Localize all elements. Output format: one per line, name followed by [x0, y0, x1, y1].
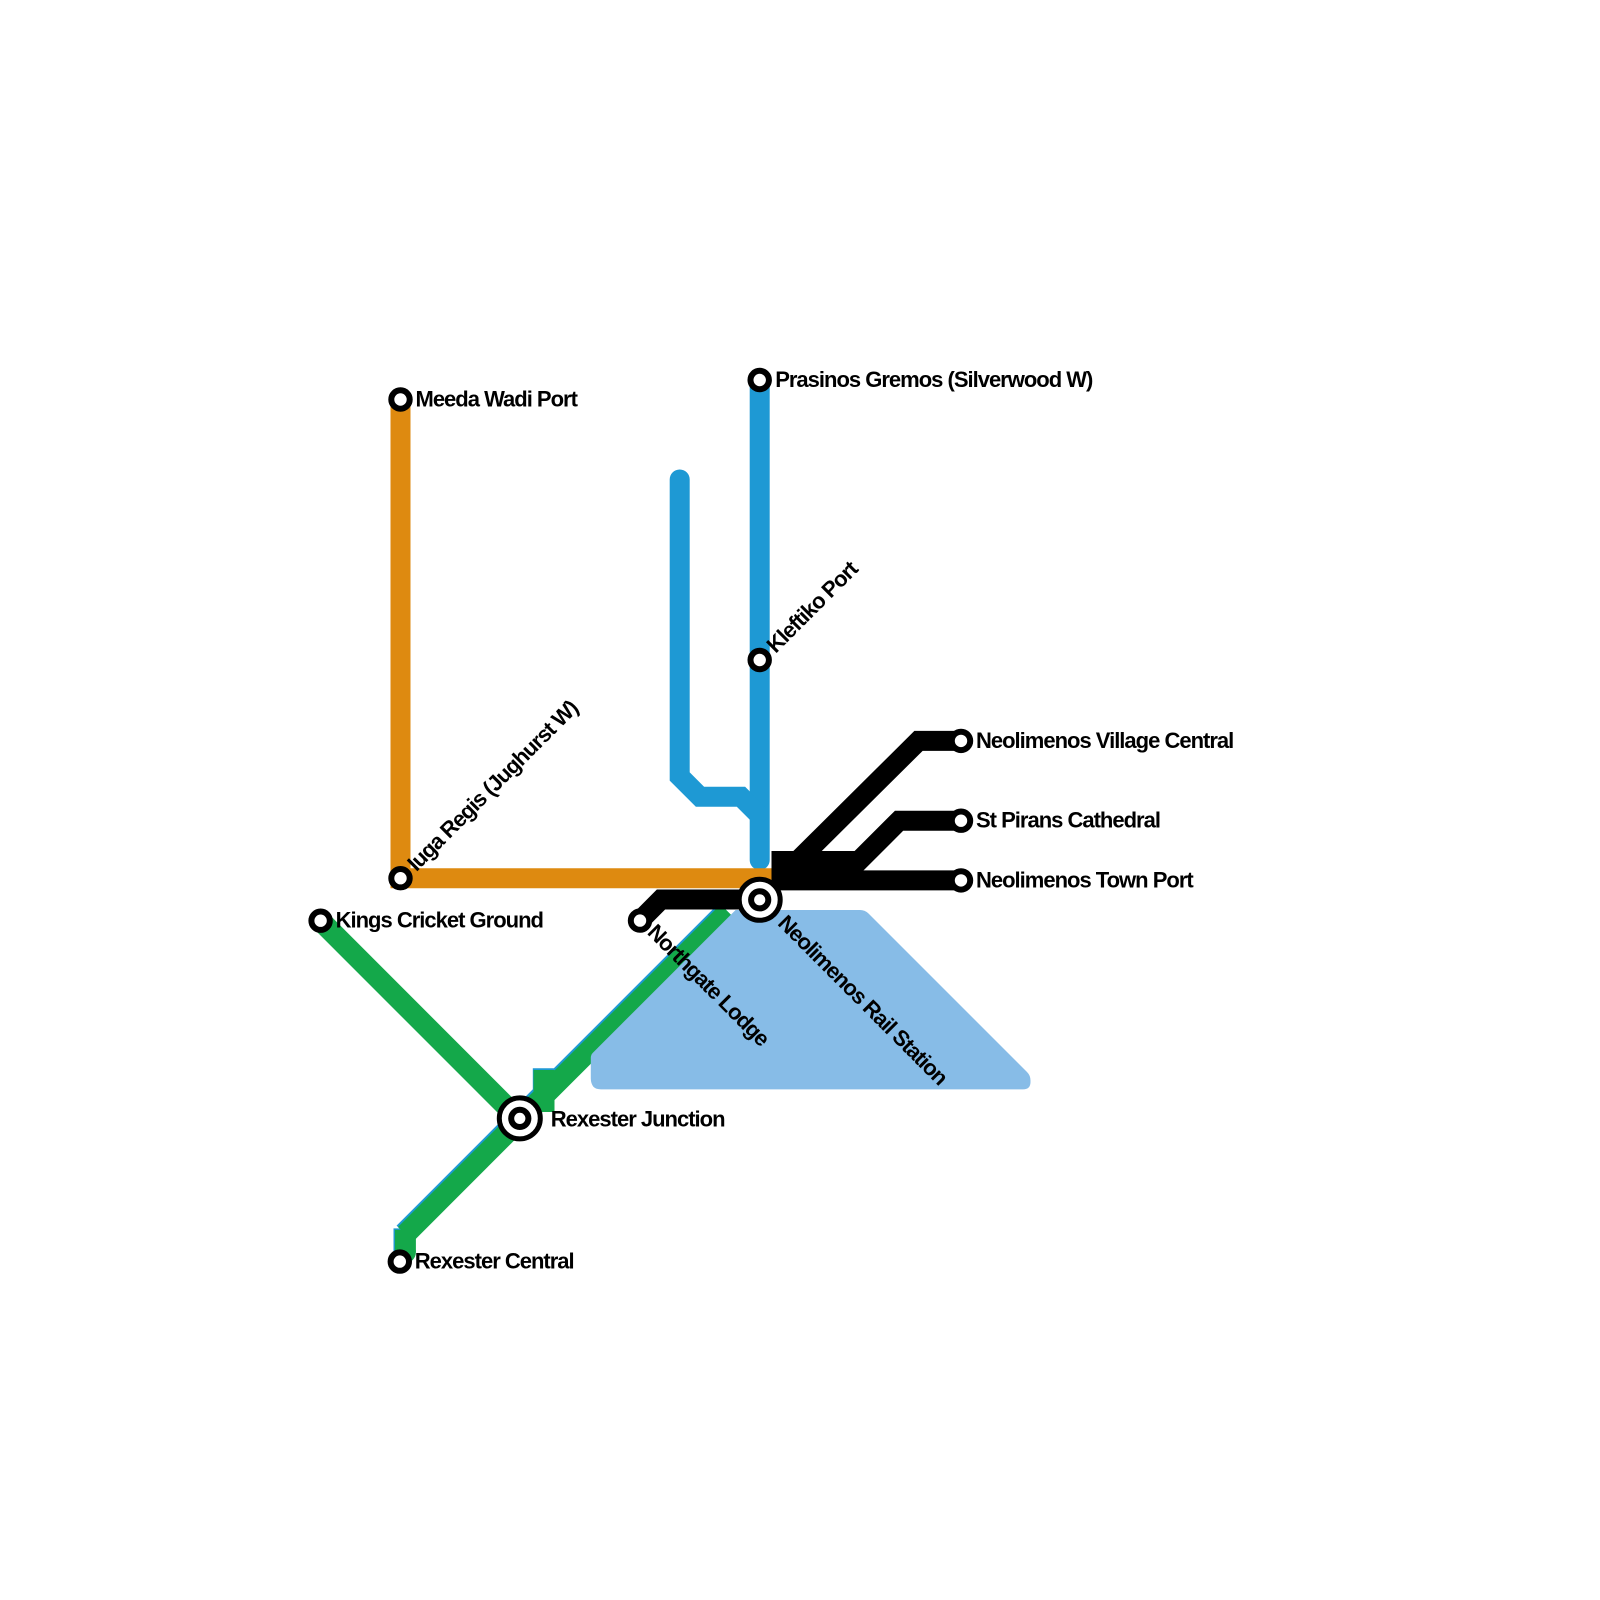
wire green: Kings Cricket Ground - Rexester Junction [321, 921, 520, 1120]
wire blue branch (Kleftiko spur) [680, 480, 758, 814]
svg-text:Neolimenos Village Central: Neolimenos Village Central [976, 728, 1233, 753]
station Neolimenos Town Port [952, 871, 970, 889]
svg-text:Rexester Central: Rexester Central [415, 1249, 574, 1274]
svg-text:St Pirans Cathedral: St Pirans Cathedral [976, 808, 1160, 833]
wire blue shadow stub [533, 1068, 554, 1092]
station Prasinos Gremos [751, 371, 769, 389]
interchange Rexester Junction [499, 1098, 540, 1139]
svg-text:Rexester Junction: Rexester Junction [551, 1106, 725, 1131]
station Rexester Central [391, 1252, 409, 1270]
wire green: Rexester Junction - Neolimenos [520, 912, 728, 1120]
svg-text:Meeda Wadi Port: Meeda Wadi Port [416, 387, 579, 412]
wire green stub at Rexester Junction [534, 1070, 555, 1112]
station Kings Cricket Ground [311, 912, 329, 930]
wire green: Rexester Central vertical jog [395, 1230, 416, 1253]
wire black: trunk - Neolimenos Village Central [772, 741, 962, 861]
station Neolimenos Village Central [952, 732, 970, 750]
svg-text:Neolimenos Town Port: Neolimenos Town Port [976, 867, 1194, 892]
station St Pirans Cathedral [952, 812, 970, 830]
station Kleftiko Port [751, 651, 769, 669]
station Meeda Wadi Port [391, 390, 409, 408]
water area (harbour) [591, 910, 1031, 1089]
wire blue shadow under green (Neolimenos-Rexester) [518, 910, 726, 1118]
wire blue shadow under green (Rexester-Central) [404, 1119, 518, 1233]
wire black: Neolimenos - Northgate Lodge [640, 900, 760, 921]
interchange Neolimenos Rail Station [739, 879, 780, 920]
wire orange: Meeda Wadi Port - Iuga Regis - Neolimenos [401, 400, 772, 879]
wire green: Rexester Junction - Rexester Central diagonal [405, 1120, 519, 1234]
wire blue: Prasinos Gremos - Neolimenos main [750, 380, 770, 860]
wire black: trunk - St Pirans Cathedral [772, 821, 962, 861]
station Iuga Regis [391, 869, 409, 887]
svg-text:Kings Cricket Ground: Kings Cricket Ground [336, 908, 543, 933]
svg-text:Prasinos Gremos (Silverwood W): Prasinos Gremos (Silverwood W) [775, 367, 1093, 392]
station Northgate Lodge [631, 911, 649, 929]
wire black: Neolimenos - Town Port [772, 870, 962, 890]
